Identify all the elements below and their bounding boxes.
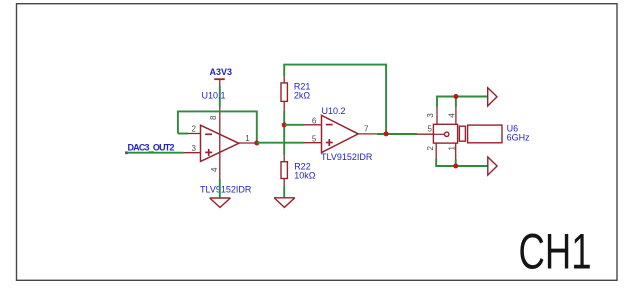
svg-text:1: 1 [245, 134, 250, 143]
svg-text:4: 4 [210, 167, 219, 172]
svg-text:3: 3 [192, 144, 197, 153]
wire U10.1 pin 4 to ground [219, 179, 221, 198]
svg-text:6GHz: 6GHz [507, 133, 531, 143]
pin 2 stub (U6) [435, 143, 437, 159]
svg-text:10kΩ: 10kΩ [294, 170, 316, 180]
junction node at U10.2 output [384, 131, 389, 136]
op-amp U2 (U10.2) [322, 115, 359, 152]
wire U6 pins 2/1 to bottom port [436, 159, 488, 167]
ground (under U10.1) [210, 198, 231, 207]
wire net DAC3_OUT2 to U10.1 pin 3 [127, 152, 184, 154]
svg-text:7: 7 [364, 125, 369, 134]
wire R22 to ground [283, 186, 285, 198]
svg-text:U10.2: U10.2 [322, 106, 346, 116]
wire U6 pin 1 riser [455, 159, 457, 166]
resistor R21 [281, 77, 287, 111]
pin 5 stub (U6) [417, 133, 433, 135]
connector U6 [433, 124, 502, 143]
svg-text:DAC3_OUT2: DAC3_OUT2 [128, 143, 175, 153]
svg-text:2: 2 [192, 125, 197, 134]
svg-text:6: 6 [312, 117, 317, 126]
wire U6 pin 4 riser [455, 97, 457, 108]
svg-text:1: 1 [447, 146, 456, 151]
svg-text:5: 5 [428, 125, 433, 134]
svg-text:8: 8 [209, 115, 218, 120]
junction node bottom [453, 164, 458, 169]
resistor R22 [281, 155, 287, 186]
pin 2 stub (U10.1) [188, 133, 201, 135]
open wire end marker [125, 151, 128, 154]
pin 5 stub (U10.2) [305, 142, 322, 144]
pin 3 stub (U6) [436, 107, 438, 124]
wire divider node to U10.2 pin 6 [284, 124, 304, 126]
wire U10.1 output to U10.2 pin 5 [257, 142, 305, 144]
pin 1 stub (U6) [455, 143, 457, 159]
port arrow top [488, 88, 497, 106]
wire into U10.1 pin 2 [178, 133, 188, 135]
svg-text:2: 2 [426, 146, 435, 151]
pin 7 stub (U10.2) [358, 133, 377, 135]
op-amp U1 (U10.1) [201, 107, 239, 179]
svg-text:CH1: CH1 [519, 224, 592, 280]
ground (under R22) [274, 198, 295, 208]
wire R21 bottom to R22 top [283, 111, 285, 156]
svg-text:A3V3: A3V3 [210, 67, 233, 77]
pin 1 stub (U10.1) [239, 142, 257, 144]
wire feedback loop U10.1 output to pin 2 [178, 111, 257, 143]
junction node at U10.1 output [254, 141, 259, 146]
svg-text:3: 3 [426, 113, 435, 118]
pin 6 stub (U10.2) [305, 124, 322, 126]
svg-text:2kΩ: 2kΩ [294, 91, 311, 101]
port arrow bottom [488, 157, 497, 175]
wire U10.2 output to U6 pin 5 [377, 133, 417, 135]
svg-text:5: 5 [312, 134, 317, 143]
pin 4 stub (U6) [455, 107, 457, 124]
wire A3V3 to U10.1 pin 8 [219, 86, 221, 107]
power A3V3 [210, 67, 233, 86]
pin 3 stub (U10.1) [184, 152, 201, 154]
junction node R21/R22/pin6 [282, 122, 287, 127]
junction node top [453, 94, 458, 99]
wire R21 top to U10.2 output [284, 65, 386, 134]
svg-text:TLV9152IDR: TLV9152IDR [200, 185, 252, 195]
svg-text:U10.1: U10.1 [202, 91, 226, 101]
svg-text:TLV9152IDR: TLV9152IDR [321, 152, 373, 162]
svg-text:4: 4 [447, 113, 456, 118]
wire U6 pins 3/4 to top port [437, 97, 488, 108]
